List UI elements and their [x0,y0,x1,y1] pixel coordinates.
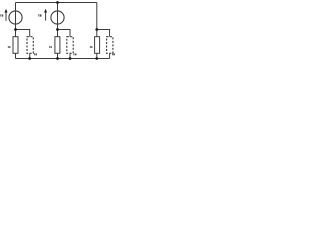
label R2 [48,46,51,48]
current source I2 [51,11,64,24]
wire jog leg2 [58,30,71,37]
label vG source1 [0,14,2,17]
label v1 node1 [33,53,36,55]
current source I1 [9,11,22,24]
wire resistor drop leg2 [57,30,59,37]
wire right drop [96,3,98,30]
wire bottom bus [16,58,110,60]
node dot bottom R2 [56,57,59,60]
capacitor C1 (dashed body) [27,37,33,54]
label R1 [7,46,10,48]
resistor R1 [13,37,18,54]
label v3 node3 [111,53,114,55]
node dot J1 [14,28,17,31]
node dot bottom C2 [69,57,72,60]
label R3 [89,46,92,48]
resistor R3 [95,37,100,54]
wire C2 bottom [69,53,71,58]
wire source2 vertical [57,3,59,30]
node dot top bus / source2 [56,1,59,4]
arrowhead I1 [5,9,8,13]
wire R3 bottom [96,53,98,58]
capacitor C2 (dashed body) [67,37,73,54]
node dot bottom R3 [95,57,98,60]
capacitor C3 (dashed body) [107,37,113,54]
wire top bus [16,2,97,4]
resistor R2 [55,37,60,54]
wire jog leg1 [16,30,30,37]
wire resistor drop leg1 [15,30,17,37]
label v2 node2 [73,53,76,55]
arrow I1 direction [5,12,7,21]
wire source1 vertical [15,3,17,30]
wire R1 bottom [15,53,17,58]
node dot J2 [56,28,59,31]
node dot bottom C1 [28,57,31,60]
arrow I2 direction [45,12,47,21]
wire resistor drop leg3 [96,30,98,37]
wire jog leg3 [97,30,110,37]
wire C1 bottom [29,53,31,58]
label iD source2 [37,14,40,17]
wire R2 bottom [57,53,59,58]
node dot J3 [95,28,98,31]
wire C3 bottom [109,53,111,58]
arrowhead I2 [44,9,47,13]
